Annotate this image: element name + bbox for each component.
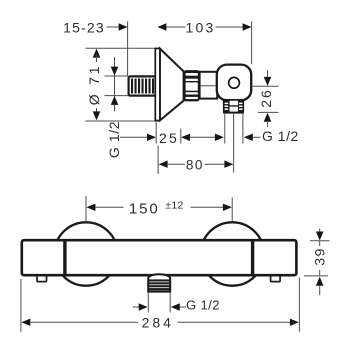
dimension line 103 left segment: [166, 26, 186, 28]
tick line thread top: [105, 75, 129, 77]
arrowhead 25 right: [181, 134, 190, 141]
tick line bottom of escutcheon: [86, 120, 161, 122]
arrowhead 150 right: [223, 204, 232, 211]
svg-text:15-23: 15-23: [63, 20, 105, 36]
left wall escutcheon circle: [54, 222, 117, 285]
dimension line 150 right segment: [191, 206, 224, 208]
valve body: [217, 65, 251, 101]
svg-text:±12: ±12: [165, 199, 183, 211]
arrowhead 284 left: [21, 319, 30, 326]
svg-text:Ø 71: Ø 71: [86, 64, 102, 106]
shower hose outlet: [148, 274, 171, 292]
arrowhead 39 up: [316, 277, 324, 286]
svg-text:G 1/2: G 1/2: [186, 298, 220, 313]
arrowhead G12 thread down: [111, 67, 119, 76]
tick line valve axis right: [252, 85, 279, 87]
dimension line G12 thread vertical: [114, 57, 116, 112]
svg-text:80: 80: [186, 157, 204, 172]
leader to G12 hose label: [179, 306, 186, 308]
extension line nut start: [180, 129, 182, 144]
dimension line 150 left segment: [95, 206, 124, 208]
left handle tab: [37, 276, 47, 282]
extension line hose left: [147, 292, 149, 313]
svg-text:39: 39: [311, 247, 327, 266]
dimension line 284 right segment: [178, 321, 291, 323]
left handle divider: [63, 241, 66, 275]
right handle divider: [251, 241, 254, 275]
tick line bar top right: [310, 240, 330, 242]
extension line 284 left: [20, 279, 22, 332]
dimension line 26 upper stub: [267, 70, 269, 78]
svg-text:25: 25: [159, 130, 179, 146]
mixer bar body: [22, 240, 297, 275]
dimension line 103 right segment: [216, 26, 244, 28]
extension line at thread start: [127, 22, 129, 76]
dimension line 39 inner stub bottom: [319, 270, 321, 276]
arrowhead 26 up: [264, 113, 272, 122]
inlet center line: [200, 85, 217, 87]
svg-text:G 1/2: G 1/2: [262, 128, 299, 144]
extension line 150 left: [85, 196, 87, 222]
valve screw circle: [229, 77, 240, 88]
dimension line G12 hose leader: [133, 306, 139, 308]
extension line hose right: [169, 292, 171, 313]
arrowhead 150 left: [86, 204, 95, 211]
leader to G12 outlet label: [252, 136, 260, 138]
thread stripes: [131, 79, 154, 94]
extension line 284 right: [298, 278, 300, 332]
arrowhead 284 right: [290, 319, 299, 326]
outlet axis extension line: [233, 114, 235, 173]
escutcheon face: [155, 49, 160, 121]
svg-text:G 1/2: G 1/2: [106, 121, 122, 158]
extension line outlet left: [224, 114, 226, 144]
extension line at valve body right: [251, 22, 253, 65]
arrowhead G12 thread up: [111, 96, 119, 105]
leader line for 15-23: [107, 26, 121, 28]
arrowhead G12 outlet right: [244, 134, 253, 141]
extension line 150 right: [231, 198, 233, 222]
union nut: [184, 70, 200, 101]
arrowhead dia71 down: [93, 111, 101, 120]
dimension line 25 leader: [120, 136, 148, 138]
right handle tab: [271, 276, 281, 282]
tick line thread bottom: [105, 95, 129, 97]
dimension line 26 lower stub: [267, 121, 269, 127]
threaded wall pipe: [129, 76, 156, 95]
dimension line dia71 upper stub: [96, 54, 98, 62]
escutcheon cone: [160, 49, 184, 121]
svg-text:26: 26: [258, 88, 274, 108]
arrowhead 80 left: [159, 161, 168, 168]
svg-text:103: 103: [186, 20, 216, 36]
arrowhead 26 down: [264, 77, 272, 86]
arrowhead 39 down: [316, 232, 324, 241]
tick line outlet bottom right: [258, 111, 279, 113]
extension line outlet right: [242, 114, 244, 144]
arrowhead 80 right: [224, 161, 233, 168]
arrowhead 103 right: [243, 23, 252, 30]
dimension line 39 inner stub top: [319, 241, 321, 246]
extension line 80 left: [157, 146, 159, 175]
dimension line between 25 and G12: [190, 136, 216, 138]
dimension line 39 lower stub: [319, 285, 321, 295]
arrowhead G12 hose right: [171, 303, 180, 310]
arrowhead 15-23 right tip: [119, 23, 128, 30]
inlet connector: [200, 72, 218, 99]
arrowhead 25 left: [147, 134, 156, 141]
dimension line 80 right segment: [205, 163, 226, 165]
arrowhead dia71 up: [93, 49, 101, 58]
dimension line 80 left segment: [167, 163, 185, 165]
svg-text:150: 150: [129, 201, 160, 218]
dimension line 39 upper stub: [319, 229, 321, 234]
dimension line 284 left segment: [30, 321, 138, 323]
right wall escutcheon circle: [201, 222, 264, 285]
extension line cone face lower: [155, 122, 157, 144]
svg-text:284: 284: [142, 314, 174, 330]
outlet threaded port: [223, 99, 244, 113]
dimension line dia71 lower stub: [96, 108, 98, 114]
arrowhead G12 hose left: [139, 303, 148, 310]
tick line top of escutcheon: [86, 47, 161, 49]
tick line bar bottom right: [304, 275, 328, 277]
arrowhead 103 left: [157, 23, 166, 30]
arrowhead G12 outlet left: [215, 134, 224, 141]
